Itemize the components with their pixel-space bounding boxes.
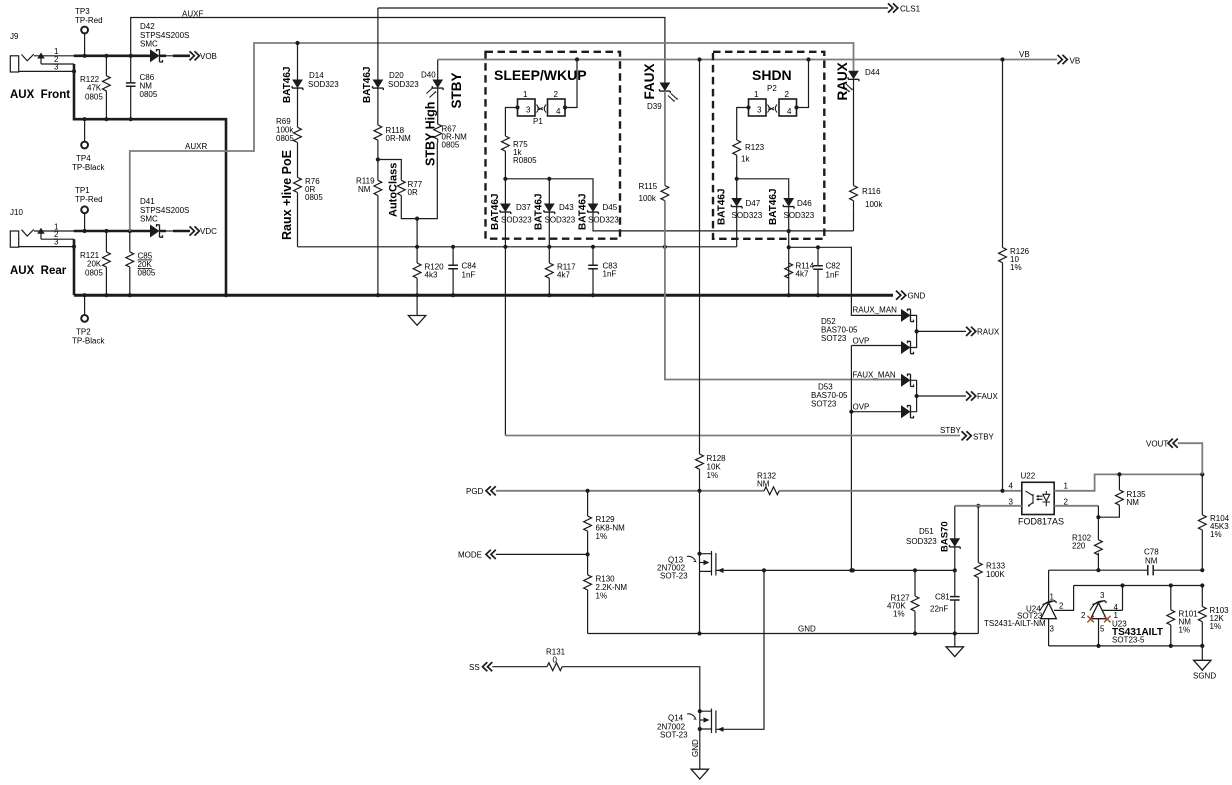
- transistor Q14 (2N7002): [698, 709, 702, 713]
- wire AutoClass branch: [378, 143, 437, 219]
- wire SS row: [492, 667, 700, 712]
- P2 pin labels: [754, 90, 792, 116]
- wire Q13 gate row: [716, 569, 955, 571]
- svg-text:GND: GND: [798, 625, 816, 634]
- resistor R103: [1201, 586, 1203, 646]
- svg-text:4k7: 4k7: [796, 270, 809, 279]
- svg-text:TP4: TP4: [76, 154, 91, 163]
- svg-text:SOD323: SOD323: [545, 216, 576, 225]
- wire STBY row: [504, 247, 506, 436]
- resistor R129: [587, 491, 589, 555]
- capacitor C82: [817, 247, 819, 295]
- svg-text:3: 3: [1100, 591, 1105, 600]
- svg-text:MODE: MODE: [458, 551, 482, 560]
- svg-text:OVP: OVP: [853, 403, 870, 412]
- wire D53 cathode join to FAUX: [911, 380, 967, 411]
- svg-text:1%: 1%: [893, 610, 905, 619]
- U23 DNP X marks: [1087, 616, 1110, 623]
- optocoupler U22: [1022, 482, 1054, 514]
- diode D51 column: [954, 506, 956, 539]
- port VOB: [190, 51, 200, 60]
- J10 ring arrow: [37, 228, 45, 234]
- svg-text:STBY: STBY: [973, 433, 995, 442]
- svg-text:0805: 0805: [305, 193, 323, 202]
- svg-text:R0805: R0805: [513, 156, 537, 165]
- svg-text:BAT46J: BAT46J: [578, 194, 589, 231]
- D44 indicator arrows: [843, 84, 853, 92]
- labels U23: [1112, 620, 1163, 645]
- resistor R69: [294, 127, 302, 142]
- diode D47: [731, 198, 742, 209]
- svg-text:P1: P1: [533, 117, 543, 126]
- svg-text:AUX Rear: AUX Rear: [10, 265, 67, 277]
- svg-text:100K: 100K: [986, 570, 1005, 579]
- junction dots J10 bus: [83, 229, 87, 233]
- svg-text:1: 1: [523, 90, 528, 99]
- capacitor C81: [954, 570, 956, 633]
- capacitor C78 (horizontal): [1148, 565, 1153, 575]
- svg-text:NM: NM: [757, 480, 770, 489]
- resistor R119: [374, 180, 382, 195]
- wire ref row (585.5): [1054, 586, 1202, 611]
- svg-text:TP-Black: TP-Black: [72, 163, 105, 172]
- wire J9 pin1 bus: [74, 54, 150, 57]
- diode D53A: [901, 374, 914, 387]
- diode D41: [150, 225, 163, 238]
- svg-text:3: 3: [526, 106, 531, 115]
- wire U22 pin3 row: [955, 505, 1022, 507]
- SLEEP/WKUP dashed box: [486, 52, 621, 239]
- test point TP2: [81, 315, 88, 322]
- wire R116 bottom link: [853, 209, 855, 231]
- svg-text:220: 220: [1072, 542, 1086, 551]
- svg-text:D47: D47: [746, 199, 761, 208]
- wire D52 cathode join to RAUX: [911, 315, 967, 347]
- svg-text:TP3: TP3: [75, 7, 90, 16]
- svg-text:TP-Red: TP-Red: [75, 16, 103, 25]
- node AutoClass junction: [376, 157, 380, 161]
- svg-text:BAS70: BAS70: [940, 521, 951, 552]
- svg-text:Q14: Q14: [668, 714, 684, 723]
- resistor R122: [105, 56, 107, 119]
- diode D46: [783, 198, 794, 209]
- svg-text:0R-NM: 0R-NM: [386, 134, 412, 143]
- svg-text:0805: 0805: [140, 90, 158, 99]
- node SHDN diode bus: [735, 177, 739, 181]
- svg-text:BAT46J: BAT46J: [282, 67, 293, 104]
- resistor R126 column: [1002, 60, 1004, 491]
- resistor R123: [733, 140, 741, 155]
- wire FAUX_MAN riser: [665, 247, 901, 380]
- svg-text:4: 4: [1009, 482, 1014, 491]
- svg-text:47K: 47K: [87, 84, 102, 93]
- test point TP4: [81, 142, 88, 149]
- connector J10 (AUX Rear jack): [10, 229, 74, 247]
- svg-text:D51: D51: [919, 527, 934, 536]
- wire GND main bus: [74, 294, 893, 297]
- U24 pin labels: [1050, 593, 1065, 634]
- resistor R130: [587, 554, 589, 633]
- svg-text:D40: D40: [421, 71, 436, 80]
- svg-text:1k: 1k: [741, 155, 750, 164]
- svg-text:J10: J10: [10, 208, 23, 217]
- resistor R132 (horizontal): [764, 487, 779, 495]
- svg-text:1nF: 1nF: [826, 271, 840, 280]
- junction J9 pin3: [72, 69, 76, 73]
- svg-text:BAT46J: BAT46J: [768, 189, 779, 226]
- wire P2 right to VB: [797, 60, 809, 108]
- svg-text:D42: D42: [140, 22, 155, 31]
- label D20: [388, 71, 419, 89]
- svg-text:SGND: SGND: [1193, 672, 1216, 681]
- diode D39 (FAUX led): [660, 83, 671, 94]
- resistor R77: [397, 180, 405, 195]
- svg-text:NM: NM: [1127, 498, 1140, 507]
- svg-text:SS: SS: [469, 663, 480, 672]
- svg-text:SLEEP/WKUP: SLEEP/WKUP: [494, 67, 587, 83]
- svg-text:1%: 1%: [1210, 530, 1222, 539]
- svg-text:0805: 0805: [442, 141, 460, 150]
- svg-text:1: 1: [1064, 482, 1069, 491]
- wire MODE row: [496, 553, 588, 555]
- svg-text:BAT46J: BAT46J: [490, 194, 501, 231]
- resistor R127: [914, 570, 916, 633]
- test point TP1: [81, 206, 88, 213]
- junction dots J9 bus: [83, 54, 87, 58]
- svg-text:J9: J9: [10, 32, 19, 41]
- pin numbers J10: [54, 223, 59, 247]
- svg-text:0805: 0805: [138, 269, 156, 278]
- svg-text:U22: U22: [1021, 472, 1036, 481]
- svg-text:VB: VB: [1019, 50, 1030, 59]
- wire U24 cathode riser: [1048, 570, 1050, 602]
- svg-text:2: 2: [1059, 602, 1064, 611]
- svg-text:R116: R116: [862, 187, 881, 196]
- svg-text:NM: NM: [1145, 557, 1158, 566]
- svg-text:1%: 1%: [1010, 263, 1022, 272]
- resistor R133: [977, 506, 979, 634]
- svg-text:3: 3: [1050, 625, 1055, 634]
- svg-text:TP2: TP2: [76, 328, 91, 337]
- svg-text:SOT-23: SOT-23: [660, 731, 688, 740]
- diode D40 column wire: [437, 60, 439, 125]
- labels U24: [984, 605, 1046, 629]
- diode D52A: [901, 309, 914, 322]
- wire SGND row: [1049, 645, 1203, 647]
- wire C78 row: [1049, 569, 1203, 571]
- resistor R102: [1095, 540, 1103, 555]
- svg-text:SOT23: SOT23: [811, 400, 837, 409]
- svg-text:4k3: 4k3: [425, 271, 438, 280]
- wire PGD row: [496, 490, 1022, 492]
- svg-text:P2: P2: [767, 84, 777, 93]
- wire VB line: [438, 59, 1057, 61]
- port FAUX: [966, 391, 976, 400]
- svg-text:3: 3: [54, 63, 59, 72]
- wire J10 pin2/3 down: [73, 239, 76, 295]
- svg-text:1nF: 1nF: [603, 270, 617, 279]
- svg-text:0805: 0805: [276, 134, 294, 143]
- P2 jumper symbol: [768, 105, 778, 113]
- svg-text:20K: 20K: [87, 260, 102, 269]
- svg-text:FAUX: FAUX: [642, 63, 657, 99]
- svg-text:1%: 1%: [596, 592, 608, 601]
- svg-text:SOD323: SOD323: [501, 216, 532, 225]
- svg-text:C82: C82: [826, 262, 841, 271]
- svg-text:0805: 0805: [85, 269, 103, 278]
- label D52: [821, 317, 858, 343]
- U22 internal led: [1026, 491, 1034, 506]
- svg-text:3: 3: [757, 106, 762, 115]
- svg-text:1: 1: [754, 90, 759, 99]
- svg-text:AUXR: AUXR: [185, 142, 207, 151]
- port VDC: [190, 226, 200, 235]
- svg-text:RAUX_MAN: RAUX_MAN: [853, 306, 898, 315]
- svg-text:OVP: OVP: [853, 337, 870, 346]
- wire R120 column: [416, 219, 418, 296]
- U22 internal light arrows: [1038, 496, 1043, 499]
- svg-text:FOD817AS: FOD817AS: [1018, 517, 1064, 527]
- svg-text:SOT23-5: SOT23-5: [1112, 636, 1145, 645]
- svg-text:4: 4: [787, 107, 792, 116]
- wire U22 pin2 out: [1054, 505, 1098, 507]
- diode D51: [949, 538, 960, 549]
- svg-text:5: 5: [1100, 625, 1105, 634]
- wire U22 pin1 out: [1054, 474, 1202, 490]
- SHDN dashed box: [713, 52, 824, 239]
- svg-text:C81: C81: [935, 593, 950, 602]
- wire class net (thin line y=247): [298, 246, 737, 248]
- svg-text:SOD323: SOD323: [588, 216, 619, 225]
- node SLEEP diode bus: [503, 177, 507, 181]
- diode D20: [373, 80, 384, 91]
- diode D53B: [901, 405, 914, 418]
- resistor R120: [413, 263, 421, 278]
- component P2 pad 1: [749, 99, 767, 116]
- svg-text:VDC: VDC: [200, 227, 217, 236]
- diode D42: [150, 49, 163, 62]
- J9 ring arrow: [37, 53, 45, 59]
- diode D37: [500, 204, 511, 215]
- svg-text:AUXF: AUXF: [182, 10, 203, 19]
- svg-text:TS2431-AILT-NM: TS2431-AILT-NM: [984, 619, 1046, 628]
- test point TP3: [81, 27, 88, 34]
- svg-text:CLS1: CLS1: [900, 5, 921, 14]
- svg-text:1: 1: [1050, 593, 1055, 602]
- port CLS1: [888, 3, 898, 12]
- svg-text:VB: VB: [1070, 57, 1081, 66]
- svg-text:D45: D45: [603, 203, 618, 212]
- svg-text:TP1: TP1: [75, 186, 90, 195]
- wire GND row (bottom): [588, 633, 979, 635]
- svg-text:SOT-23: SOT-23: [660, 572, 688, 581]
- resistor R114: [785, 263, 793, 278]
- svg-text:NM: NM: [358, 185, 371, 194]
- svg-text:TP-Black: TP-Black: [72, 337, 105, 346]
- svg-text:1nF: 1nF: [462, 271, 476, 280]
- capacitor C86: [130, 56, 132, 119]
- wire OVP row2: [851, 411, 901, 413]
- svg-text:BAT46J: BAT46J: [534, 194, 545, 231]
- pin numbers J9: [54, 47, 59, 72]
- wire P1 left to R75: [505, 108, 517, 137]
- wire VOUT: [1178, 443, 1203, 474]
- diode D52B: [901, 341, 914, 354]
- labels Q13: [657, 556, 688, 581]
- svg-text:1%: 1%: [1179, 626, 1191, 635]
- resistor R131 (horizontal): [547, 663, 562, 671]
- svg-text:SOD323: SOD323: [308, 80, 339, 89]
- svg-text:SOT23: SOT23: [821, 334, 847, 343]
- resistor R128: [696, 454, 704, 469]
- label D14: [308, 71, 339, 89]
- svg-text:C78: C78: [1144, 548, 1159, 557]
- svg-text:D43: D43: [559, 203, 574, 212]
- P1 jumper symbol: [537, 105, 547, 113]
- svg-text:2: 2: [1081, 611, 1086, 620]
- svg-text:D20: D20: [389, 71, 404, 80]
- ground symbol (R120): [416, 295, 418, 315]
- svg-text:D44: D44: [865, 68, 880, 77]
- svg-text:SOD323: SOD323: [388, 80, 419, 89]
- label D41: [140, 197, 189, 224]
- resistor R121: [105, 231, 107, 295]
- diode D43: [544, 204, 555, 215]
- wire P1 right to VB: [565, 60, 577, 108]
- svg-text:BAT46J: BAT46J: [362, 67, 373, 104]
- svg-text:STBY: STBY: [940, 426, 962, 435]
- wire to D37/D43/D45: [505, 179, 593, 204]
- svg-text:R115: R115: [639, 182, 658, 191]
- labels Q14: [657, 714, 688, 740]
- svg-text:C84: C84: [462, 262, 477, 271]
- capacitor C85 (drawn as resistor): [129, 231, 131, 295]
- component P1 pad 1: [518, 99, 536, 116]
- diode D14: [292, 80, 303, 91]
- svg-text:D46: D46: [797, 199, 812, 208]
- svg-text:1%: 1%: [707, 471, 719, 480]
- shunt reference U24 (TS2431): [1041, 603, 1057, 619]
- ground symbol (Q14): [691, 769, 708, 779]
- wire RAUX_MAN net: [789, 247, 901, 315]
- svg-text:FAUX: FAUX: [977, 392, 999, 401]
- resistor R118: [374, 125, 382, 140]
- resistor R67: [434, 124, 442, 139]
- svg-text:TP-Red: TP-Red: [75, 195, 103, 204]
- diode D40: [432, 80, 443, 91]
- component P1 pad 2: [548, 99, 566, 116]
- svg-text:AUX Front: AUX Front: [10, 89, 70, 101]
- port RAUX: [966, 327, 976, 336]
- resistor R104: [1201, 474, 1203, 570]
- wire P2 left to R123: [737, 108, 749, 141]
- label D42: [140, 22, 189, 49]
- port STBY: [962, 431, 972, 440]
- wire R128 column (VB pulldown): [699, 60, 701, 554]
- wire J10 pin1 bus: [74, 230, 150, 233]
- wire gate link to Q14: [716, 570, 764, 729]
- wire AUXF: [131, 18, 665, 83]
- svg-text:1%: 1%: [596, 532, 608, 541]
- diode D45: [588, 204, 599, 215]
- svg-text:3: 3: [54, 238, 59, 247]
- resistor R117: [548, 247, 550, 295]
- label D53: [811, 383, 848, 409]
- U23 pin labels: [1081, 591, 1119, 634]
- svg-text:Raux +Iive PoE: Raux +Iive PoE: [280, 150, 294, 240]
- svg-text:D39: D39: [647, 102, 662, 111]
- shunt reference U23 (TS431AILT): [1091, 603, 1107, 619]
- svg-text:SHDN: SHDN: [752, 67, 792, 83]
- svg-text:2: 2: [785, 90, 790, 99]
- wire Q13 drain node to D51: [851, 568, 855, 572]
- svg-text:100k: 100k: [865, 200, 883, 209]
- wire to D47/D46: [737, 179, 789, 198]
- resistor R116: [850, 186, 858, 201]
- svg-text:SMC: SMC: [140, 40, 158, 49]
- svg-text:STBY High: STBY High: [424, 102, 438, 166]
- resistor R75: [502, 136, 510, 151]
- svg-text:RAUX: RAUX: [977, 328, 1000, 337]
- capacitor C83: [592, 247, 594, 295]
- svg-text:SOD323: SOD323: [906, 537, 937, 546]
- diode D20 column wire: [377, 8, 379, 295]
- svg-text:FAUX_MAN: FAUX_MAN: [853, 371, 896, 380]
- svg-text:GND: GND: [691, 739, 700, 757]
- wire OVP row1: [851, 346, 901, 571]
- wire J9 pin2/3 down: [74, 64, 226, 295]
- svg-text:PGD: PGD: [466, 487, 484, 496]
- D40 indicator arrows: [427, 88, 437, 98]
- ground symbol (C81): [954, 634, 956, 647]
- svg-text:0R: 0R: [408, 188, 418, 197]
- svg-text:4k7: 4k7: [557, 271, 570, 280]
- ground symbol SGND: [1201, 646, 1203, 660]
- resistor R115: [661, 186, 669, 201]
- resistor R76: [294, 177, 302, 192]
- svg-text:BAT46J: BAT46J: [717, 189, 728, 226]
- svg-text:D14: D14: [309, 71, 324, 80]
- svg-text:STBY: STBY: [449, 72, 464, 108]
- wire CLS1 line: [378, 7, 888, 9]
- svg-text:SMC: SMC: [140, 215, 158, 224]
- svg-text:2: 2: [554, 90, 559, 99]
- transistor Q13 (2N7002): [697, 552, 701, 556]
- svg-text:D37: D37: [516, 203, 531, 212]
- svg-text:22nF: 22nF: [930, 605, 948, 614]
- resistor R101: [1170, 586, 1172, 646]
- U22 internal transistor: [1043, 491, 1051, 506]
- diode D44 (RAUX led): [848, 71, 859, 82]
- port VB: [1058, 55, 1068, 64]
- svg-text:AutoClass: AutoClass: [388, 163, 400, 217]
- svg-text:R123: R123: [745, 143, 765, 152]
- svg-text:100k: 100k: [639, 194, 657, 203]
- svg-text:VOB: VOB: [200, 52, 217, 61]
- svg-text:0: 0: [553, 656, 558, 665]
- svg-text:GND: GND: [908, 292, 926, 301]
- port GND: [896, 291, 906, 300]
- svg-text:SOD323: SOD323: [732, 211, 763, 220]
- diode D14 column wire: [297, 43, 299, 247]
- resistor R135: [1098, 474, 1119, 517]
- capacitor C84: [452, 247, 454, 295]
- svg-text:VOUT: VOUT: [1146, 440, 1168, 449]
- svg-text:4: 4: [556, 107, 561, 116]
- label D51: [906, 527, 937, 546]
- connector J9 (AUX Front jack): [10, 54, 74, 72]
- svg-text:D41: D41: [140, 197, 155, 206]
